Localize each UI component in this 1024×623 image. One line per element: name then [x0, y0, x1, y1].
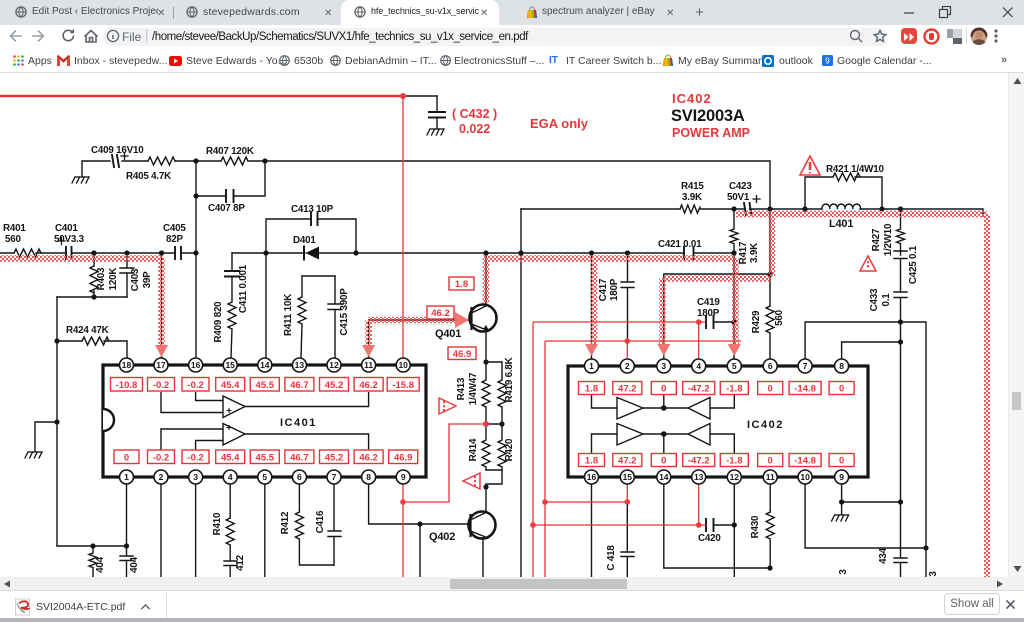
- svg-text:0: 0: [839, 456, 844, 467]
- voltage box IC401 pin5: [250, 450, 279, 464]
- svg-text:7: 7: [803, 361, 808, 371]
- svg-text:R421 1/4W10: R421 1/4W10: [826, 164, 884, 175]
- voltage box IC401 pin1: [114, 450, 139, 464]
- wire IC402 pin9 down: [841, 484, 843, 514]
- resistor R401 zigzag: [14, 249, 41, 257]
- IC401 pin 3: [189, 470, 203, 484]
- svg-text:0: 0: [661, 456, 666, 467]
- svg-text:IC402: IC402: [747, 419, 784, 431]
- svg-text:6: 6: [297, 472, 302, 482]
- capacitor C418: [621, 552, 634, 577]
- IC402 pin 14: [657, 470, 671, 484]
- svg-text:560: 560: [774, 309, 785, 325]
- wire stipple y277 band: [664, 275, 771, 282]
- wire R414 R420 bottoms to Q402 collector: [486, 470, 502, 511]
- svg-text:45.5: 45.5: [256, 380, 275, 391]
- wire red pin9 branch to R413 node: [403, 424, 483, 502]
- op-amp A1 inside IC401: [161, 392, 369, 418]
- wire red IC402 pin15 drop: [626, 484, 628, 502]
- inductor L401 coil: [822, 204, 861, 209]
- voltage box Q401 collector 1.8: [449, 277, 474, 290]
- svg-text:16: 16: [191, 360, 201, 370]
- IC401 pin 1: [120, 470, 134, 484]
- wire Q402 emitter down: [482, 538, 484, 577]
- svg-text:1.8: 1.8: [585, 456, 598, 467]
- transistor Q402 body: [469, 512, 496, 539]
- IC401 pin 2: [154, 470, 168, 484]
- node y568 right: [767, 565, 772, 570]
- svg-text:C415 390P: C415 390P: [339, 288, 350, 336]
- voltage box IC401 pin12: [320, 378, 349, 392]
- capacitor C403 vertical: [120, 253, 134, 297]
- node R417 bottom: [731, 250, 736, 255]
- svg-text:R427: R427: [871, 228, 882, 251]
- wire rail to R429 node: [769, 209, 771, 274]
- marker triangle near C433: [860, 256, 876, 271]
- svg-text:9: 9: [839, 472, 844, 482]
- svg-text:82P: 82P: [166, 234, 183, 245]
- svg-text:C420: C420: [698, 533, 721, 544]
- svg-text:46.9: 46.9: [453, 349, 472, 360]
- arrow stipple into IC401 pin11: [362, 345, 375, 357]
- resistor R430 from pin11: [766, 484, 774, 568]
- capacitor C404: [120, 546, 133, 577]
- wire stipple drop to IC402 pin3: [659, 278, 666, 348]
- svg-text:4: 4: [228, 472, 233, 482]
- IC401 pin 6: [292, 470, 306, 484]
- voltage box IC401 pin11: [354, 378, 383, 392]
- svg-text:8: 8: [366, 472, 371, 482]
- svg-text:R429: R429: [751, 310, 762, 333]
- svg-text:C407 8P: C407 8P: [208, 203, 245, 214]
- capacitor C415 vertical: [328, 276, 342, 358]
- wire IC402 pin10 down and y548 line: [805, 484, 926, 548]
- svg-text:C411 0.001: C411 0.001: [238, 264, 249, 313]
- ground below C432: [427, 129, 444, 135]
- svg-text:0.1: 0.1: [881, 293, 892, 307]
- node main row R403 tap: [91, 250, 96, 255]
- svg-text:8: 8: [839, 361, 844, 371]
- resistor R413 vertical: [482, 362, 490, 424]
- svg-text:C421 0.01: C421 0.01: [658, 239, 702, 250]
- wire stipple Q401 base row: [369, 317, 455, 324]
- node main row pin17 tap: [159, 250, 164, 255]
- svg-text:46.2: 46.2: [359, 453, 378, 464]
- node C407 left: [193, 193, 198, 198]
- resistor R421 loop: [805, 173, 882, 209]
- wire red vertical x403 to IC401 pin10: [402, 96, 404, 358]
- svg-text:412: 412: [235, 554, 246, 570]
- svg-text:3: 3: [838, 569, 849, 575]
- capacitor C425: [894, 251, 907, 292]
- svg-text:R409 820: R409 820: [213, 301, 224, 343]
- capacitor C401 plates (polarized): [66, 247, 72, 259]
- svg-text:C425 0.1: C425 0.1: [908, 245, 919, 284]
- IC402 pin 6: [763, 359, 777, 373]
- rail corner and long vertical x521: [520, 209, 522, 577]
- svg-text:C433: C433: [869, 288, 880, 311]
- svg-text:180P: 180P: [609, 278, 620, 301]
- IC402 pin 15: [620, 470, 634, 484]
- node red pin9 branch: [400, 499, 406, 505]
- capacitor C405 plates: [175, 247, 181, 259]
- capacitor C413 plates: [311, 213, 318, 225]
- svg-text:-0.2: -0.2: [153, 453, 169, 464]
- wire IC402 pin8 up to y342 line: [842, 342, 901, 358]
- svg-text:46.7: 46.7: [290, 380, 309, 391]
- svg-text:46.9: 46.9: [394, 453, 413, 464]
- voltage box IC402 pin5: [720, 382, 748, 395]
- voltage box IC401 pin7: [320, 450, 349, 464]
- svg-text:10: 10: [800, 472, 810, 482]
- svg-text:3.9K: 3.9K: [682, 192, 702, 203]
- svg-text:0: 0: [768, 456, 773, 467]
- ground IC402 pin9: [832, 515, 849, 521]
- voltage box IC402 pin14: [651, 454, 676, 467]
- node pin9 branch: [839, 499, 844, 504]
- node C419 on pin5 line: [731, 319, 736, 324]
- arrow stipple into Q401 base: [455, 312, 469, 328]
- diode D401 body: [306, 247, 320, 260]
- IC401 pin 10: [396, 358, 410, 372]
- IC401 pin 9: [396, 470, 410, 484]
- plus mark C401: [58, 238, 65, 245]
- wire IC401 pin5 down: [264, 484, 266, 577]
- svg-text:( C432 ): ( C432 ): [452, 107, 497, 121]
- transistor Q401 base bar: [470, 308, 472, 329]
- svg-text:L401: L401: [829, 218, 853, 230]
- capacitor C423 plates (polarized): [744, 203, 752, 215]
- node pin9 row on x900: [898, 499, 903, 504]
- node rail R421 right: [879, 206, 884, 211]
- node rail R421 left: [802, 206, 807, 211]
- IC402 pin 11: [763, 470, 777, 484]
- IC402 pin 4: [692, 359, 706, 373]
- wire R411 C415 top bracket: [302, 275, 335, 277]
- capacitor C432 plates: [429, 112, 445, 118]
- svg-text:45.5: 45.5: [256, 453, 275, 464]
- resistor R427 vertical: [897, 209, 905, 251]
- svg-text:0: 0: [124, 453, 129, 464]
- svg-text:IC401: IC401: [280, 417, 317, 429]
- svg-text:16: 16: [587, 472, 597, 482]
- resistor R415 zigzag: [680, 205, 700, 213]
- svg-text:C419: C419: [697, 297, 720, 308]
- node red C420 left: [696, 522, 702, 528]
- capacitor C413 loop: [266, 219, 356, 253]
- capacitor C433: [894, 292, 907, 322]
- wire C407 node down to main row: [195, 196, 197, 253]
- capacitor C434 plates: [894, 558, 907, 563]
- svg-text:C416: C416: [315, 510, 326, 533]
- resistor R407 zigzag and wire: [196, 157, 265, 165]
- voltage box IC402 pin13: [683, 454, 715, 467]
- node red y502 corner: [542, 499, 548, 505]
- op-amp U IC401 body: [103, 365, 426, 477]
- node Q401 emitter junction: [483, 359, 488, 364]
- wire red y502 line: [545, 501, 627, 503]
- resistor R412 chain pin6: [295, 484, 334, 565]
- svg-text:12: 12: [329, 360, 339, 370]
- plus mark C409: [121, 153, 128, 160]
- IC402 pin 5: [727, 359, 741, 373]
- capacitor C411 plates: [225, 271, 239, 277]
- wire red IC402 pin2 drop: [626, 341, 628, 358]
- svg-text:1: 1: [124, 472, 129, 482]
- svg-text:-1.8: -1.8: [726, 384, 742, 395]
- wire IC401 pin1 down: [126, 484, 128, 546]
- IC401 pin 14: [258, 358, 272, 372]
- svg-text:-47.2: -47.2: [688, 384, 710, 395]
- capacitor C409 plates (polarized): [112, 155, 119, 167]
- capacitor C421 plates: [684, 247, 694, 259]
- svg-text:R412: R412: [280, 511, 291, 534]
- svg-text:R430: R430: [750, 515, 761, 538]
- transistor Q401 collector/emitter legs: [472, 305, 490, 331]
- node rail R427 top: [898, 206, 903, 211]
- node main row C403 tap: [124, 250, 129, 255]
- svg-text:0.022: 0.022: [459, 122, 490, 136]
- IC401 pin 8: [362, 470, 376, 484]
- voltage box IC401 pin18: [111, 378, 143, 392]
- svg-text:R417: R417: [738, 241, 749, 264]
- svg-text:-1.8: -1.8: [726, 456, 742, 467]
- svg-text:120K: 120K: [108, 268, 119, 291]
- node y548 right: [923, 545, 928, 550]
- resistor R405 zigzag: [148, 157, 175, 165]
- voltage box IC402 pin6: [758, 382, 783, 395]
- node Q401 collector tap: [483, 250, 488, 255]
- svg-text:1: 1: [589, 361, 594, 371]
- svg-text:11: 11: [364, 360, 373, 370]
- node main row C405 right: [193, 250, 198, 255]
- IC401 pin 15: [223, 358, 237, 372]
- voltage box IC401 pin2: [148, 450, 175, 464]
- arrow stipple into IC402 pin3: [657, 344, 670, 356]
- voltage box IC401 pin16: [182, 378, 209, 392]
- node red C419 left: [696, 319, 702, 325]
- IC401 pin 4: [223, 470, 237, 484]
- resistor R429 vertical to pin6: [766, 274, 774, 358]
- IC402 pin 8: [835, 359, 849, 373]
- svg-text:18: 18: [122, 360, 132, 370]
- node C413 left leg: [263, 250, 268, 255]
- plus mark C423: [753, 196, 760, 203]
- wire left branch down: [56, 297, 58, 546]
- svg-text:0: 0: [768, 384, 773, 395]
- svg-text:2: 2: [625, 361, 630, 371]
- resistor R410 capacitor C412 chain pin4: [224, 484, 237, 577]
- svg-text:Q402: Q402: [429, 531, 455, 543]
- svg-text:POWER AMP: POWER AMP: [672, 126, 750, 140]
- voltage box IC401 pin9: [389, 450, 418, 464]
- voltage box IC401 pin17: [148, 378, 175, 392]
- IC402 pin 12: [727, 470, 741, 484]
- svg-text:17: 17: [156, 360, 166, 370]
- svg-text:Q401: Q401: [435, 328, 461, 340]
- wire chain x900 down: [900, 322, 902, 558]
- wire red y322 line to C419: [533, 321, 706, 323]
- wire IC401 pin3 down: [195, 484, 197, 577]
- svg-text:7: 7: [332, 472, 337, 482]
- wire red vertical x533: [532, 322, 534, 577]
- node x521 crossing: [518, 250, 523, 255]
- marker triangle near R413: [439, 398, 456, 414]
- wire R413/R419 bottom join: [486, 423, 502, 425]
- wire pin9 branch right: [842, 501, 901, 503]
- wire Q401 collector up: [485, 253, 487, 305]
- voltage box IC401 pin4: [216, 450, 245, 464]
- arrow stipple into IC402 pin1: [585, 344, 598, 356]
- svg-text:5: 5: [262, 472, 267, 482]
- svg-text:R405 4.7K: R405 4.7K: [126, 171, 171, 182]
- svg-text:13: 13: [295, 360, 305, 370]
- wire red top rail: [0, 95, 403, 98]
- warning triangle near R421: [800, 156, 820, 175]
- power-amp U IC402 body: [568, 366, 868, 477]
- svg-text:R410: R410: [212, 512, 223, 535]
- voltage box IC402 pin11: [758, 454, 783, 467]
- node Q402 collector: [483, 484, 488, 489]
- svg-text:R401: R401: [3, 223, 26, 234]
- svg-text:560: 560: [5, 234, 21, 245]
- transistor Q402 base bar: [469, 515, 471, 536]
- IC402 pin 7: [798, 359, 812, 373]
- node chain x900 on y322: [898, 319, 903, 324]
- svg-text:IC402: IC402: [672, 91, 712, 106]
- svg-text:-0.2: -0.2: [153, 380, 169, 391]
- svg-text:C413 10P: C413 10P: [291, 204, 334, 215]
- capacitor C407 loop wires: [196, 161, 265, 196]
- IC402 pin 1: [585, 359, 599, 373]
- svg-text:C403: C403: [130, 268, 141, 291]
- svg-text:50V1: 50V1: [727, 192, 750, 203]
- wire long top line to right rail corner: [265, 161, 770, 209]
- marker triangle near Q402 collector: [463, 473, 480, 489]
- resistor R404 vertical: [89, 546, 97, 577]
- wire stipple drop to IC402 pin1: [591, 262, 598, 348]
- wire IC402 pin16 down: [591, 484, 593, 577]
- capacitor C417 chain: [621, 253, 634, 341]
- IC401 pin 11: [362, 358, 376, 372]
- resistor R417 vertical: [730, 209, 738, 253]
- wire stipple main row left highlight: [0, 255, 163, 262]
- node red pin15 bottom: [625, 499, 631, 505]
- wire red IC402 pin13 drop: [698, 484, 700, 525]
- svg-text:0: 0: [661, 384, 666, 395]
- voltage box IC401 pin13: [285, 378, 314, 392]
- voltage box IC401 pin8: [354, 450, 383, 464]
- voltage box IC402 pin10: [789, 454, 821, 467]
- IC402 pin 3: [657, 359, 671, 373]
- voltage box IC401 pin6: [285, 450, 314, 464]
- svg-text:11: 11: [766, 472, 775, 482]
- node y274 R429 top: [767, 272, 772, 277]
- node R424 left: [54, 338, 59, 343]
- IC402 pin 9: [835, 470, 849, 484]
- wire stipple rail x770 drop: [769, 212, 776, 276]
- resistor R414 vertical: [482, 424, 490, 470]
- wire pin15 lower black segment: [626, 502, 628, 552]
- voltage box IC402 pin3: [651, 382, 676, 395]
- node buffer B1 output join: [661, 405, 667, 411]
- capacitor C432 lead from top rail: [436, 96, 438, 128]
- svg-text:47.2: 47.2: [618, 384, 637, 395]
- svg-text:3: 3: [928, 571, 939, 577]
- IC402 pin 13: [692, 470, 706, 484]
- svg-text:45.2: 45.2: [325, 380, 344, 391]
- node red C417 bottom: [625, 338, 631, 344]
- svg-text:R420: R420: [504, 438, 515, 461]
- transistor Q401 body: [470, 305, 497, 332]
- svg-text:C401: C401: [55, 223, 78, 234]
- svg-text:C 418: C 418: [606, 545, 617, 571]
- wire chain x900 tail: [900, 563, 902, 578]
- wire emitter node to R419: [486, 361, 502, 363]
- svg-text:14: 14: [659, 472, 669, 482]
- svg-text:EGA only: EGA only: [530, 116, 589, 131]
- voltage box IC401 pin10: [387, 378, 419, 392]
- node red R413 bottom: [483, 421, 489, 427]
- IC401 pin 13: [292, 358, 306, 372]
- voltage box IC402 pin15: [613, 454, 642, 467]
- IC402 pin 10: [798, 470, 812, 484]
- svg-text:9: 9: [825, 57, 830, 66]
- wire stipple drop on pin5 column: [732, 258, 739, 348]
- svg-text:3: 3: [193, 472, 198, 482]
- voltage box IC402 pin1: [579, 382, 605, 395]
- svg-text:-10.8: -10.8: [116, 380, 138, 391]
- buffer B2 inside IC402: [592, 424, 735, 454]
- voltage box IC401 pin14: [250, 378, 279, 392]
- svg-text:R403: R403: [96, 267, 107, 290]
- node C413 right leg: [353, 250, 358, 255]
- capacitor C419 plates: [706, 316, 714, 328]
- voltage box IC402 pin8: [829, 382, 854, 395]
- resistor R419 vertical: [498, 362, 506, 424]
- voltage box IC402 pin16: [579, 454, 605, 467]
- node Q402 base row x420: [417, 521, 422, 526]
- svg-text:3: 3: [661, 361, 666, 371]
- IC401 pin 17: [154, 358, 168, 372]
- svg-text:-0.2: -0.2: [187, 453, 203, 464]
- IC402 pin 16: [585, 470, 599, 484]
- svg-text:404: 404: [129, 556, 140, 572]
- wire IC402 pin12 down: [733, 484, 735, 577]
- svg-text:6: 6: [768, 361, 773, 371]
- svg-text:1/4W47: 1/4W47: [468, 372, 479, 405]
- svg-text:1/2W10: 1/2W10: [883, 223, 894, 256]
- node R404 top: [90, 543, 95, 548]
- svg-text:4: 4: [696, 361, 701, 371]
- svg-text:1.8: 1.8: [455, 279, 468, 290]
- svg-text:47.2: 47.2: [618, 456, 637, 467]
- svg-text:434: 434: [878, 547, 889, 563]
- resistor R403 vertical: [90, 253, 98, 297]
- voltage box IC402 pin7: [789, 382, 821, 395]
- capacitor C420 right stub: [714, 524, 735, 526]
- IC401 pin 18: [120, 358, 134, 372]
- voltage box IC402 pin4: [683, 382, 715, 395]
- resistor R424 row: [57, 337, 127, 358]
- IC401 pin 5: [258, 470, 272, 484]
- wire pin16 vertical: [195, 253, 197, 358]
- wire stipple page right edge drop: [984, 214, 990, 577]
- svg-text:10: 10: [398, 360, 408, 370]
- svg-text:404: 404: [95, 556, 106, 572]
- wire pin1 bottom join: [57, 545, 127, 547]
- svg-text:12: 12: [730, 472, 740, 482]
